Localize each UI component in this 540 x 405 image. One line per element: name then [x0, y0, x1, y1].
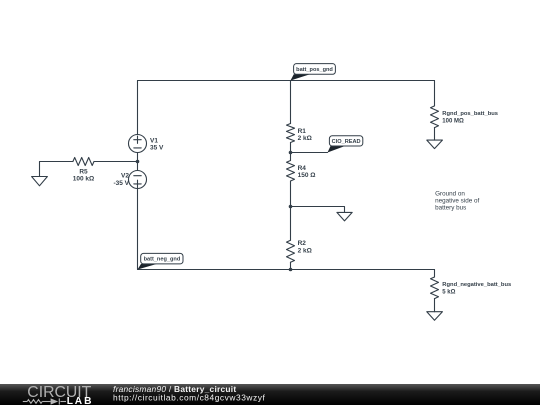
flag batt_neg_gnd [138, 253, 184, 269]
ground symbol top right [427, 140, 443, 149]
flag CIO_READ [328, 136, 363, 153]
wire top horizontal batt_pos_gnd net [138, 80, 435, 82]
svg-text:Rgnd_pos_batt_bus: Rgnd_pos_batt_bus [442, 111, 498, 117]
V2 plus sign [134, 180, 141, 187]
wire R5 left lead to ground [40, 162, 73, 177]
wire left vertical top (to V1) [137, 81, 139, 135]
svg-text:2 kΩ: 2 kΩ [298, 135, 312, 142]
svg-text:LAB: LAB [67, 396, 94, 405]
svg-text:R1: R1 [298, 128, 307, 135]
voltage source V1 circle [129, 135, 147, 153]
V1 plus sign [134, 136, 141, 143]
resistor Rgnd_pos_batt_bus zigzag [431, 106, 439, 128]
flag batt_pos_gnd [291, 64, 336, 81]
junction node R4-gnd [289, 205, 293, 209]
svg-text:batt_pos_gnd: batt_pos_gnd [296, 67, 333, 73]
svg-text:battery bus: battery bus [435, 204, 466, 211]
wire node1 to CIO_READ flag [291, 152, 328, 154]
svg-text:V1: V1 [150, 137, 158, 144]
wire node2 to middle ground [291, 207, 345, 213]
wire V1 to junction [137, 153, 139, 162]
wire R2 to bottom [290, 262, 292, 269]
wire junction to V2 [137, 162, 139, 171]
wire R4 to node2 and down to R2 [290, 181, 292, 240]
resistor R5 zigzag [73, 158, 94, 166]
wire right vertical bottom to Rgnd_negative_batt_bus [434, 270, 436, 278]
wire V2 down to batt_neg_gnd node [137, 189, 139, 270]
wire junction to R5 right lead [94, 161, 138, 163]
junction node R1-R4 (CIO_READ) [289, 151, 293, 155]
wire middle vertical: top to R1 [290, 81, 292, 124]
svg-text:R5: R5 [79, 168, 88, 175]
voltage source V2 circle [129, 171, 147, 189]
V1 minus sign [134, 147, 141, 149]
svg-text:R2: R2 [298, 240, 307, 247]
svg-text:Rgnd_negative_batt_bus: Rgnd_negative_batt_bus [442, 282, 511, 288]
junction node R2-bottom wire [289, 268, 293, 272]
svg-text:Ground on: Ground on [435, 190, 465, 197]
svg-text:5 kΩ: 5 kΩ [442, 289, 455, 295]
svg-text:V2: V2 [121, 173, 129, 180]
svg-text:R4: R4 [298, 165, 307, 172]
resistor R4 zigzag [287, 161, 295, 182]
V2 minus sign [134, 175, 141, 177]
svg-text:150 Ω: 150 Ω [298, 172, 316, 179]
svg-text:http://circuitlab.com/c84gcvw3: http://circuitlab.com/c84gcvw33wzyf [113, 392, 265, 402]
ground symbol middle [337, 212, 352, 221]
svg-text:-35 V: -35 V [113, 180, 129, 187]
svg-text:CIO_READ: CIO_READ [332, 139, 361, 145]
wire right vertical top to Rgnd_pos_batt_bus [434, 81, 436, 106]
wire Rgnd_pos_batt_bus to ground [434, 128, 436, 141]
resistor R1 zigzag [287, 124, 295, 143]
logo diode triangle [51, 398, 59, 404]
resistor Rgnd_negative_batt_bus zigzag [431, 277, 439, 299]
wire bottom horizontal batt_neg_gnd net [138, 269, 435, 271]
svg-text:2 kΩ: 2 kΩ [298, 247, 312, 254]
resistor R2 zigzag [287, 240, 295, 262]
svg-text:100 kΩ: 100 kΩ [73, 176, 94, 183]
junction node V1-V2 [136, 160, 140, 164]
ground symbol bottom right [427, 312, 443, 321]
wire R1 to node1 [290, 143, 292, 161]
svg-text:negative side of: negative side of [435, 197, 479, 204]
svg-text:100 MΩ: 100 MΩ [442, 118, 464, 124]
ground symbol left [32, 177, 48, 186]
wire Rgnd_negative_batt_bus to ground [434, 299, 436, 312]
logo resistor-diode glyph [23, 398, 66, 404]
svg-text:35 V: 35 V [150, 145, 164, 152]
svg-text:batt_neg_gnd: batt_neg_gnd [144, 257, 181, 263]
